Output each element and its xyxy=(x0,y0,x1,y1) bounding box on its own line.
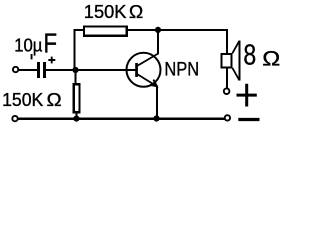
svg-text:150K: 150K xyxy=(2,89,44,110)
output polarity plus sign xyxy=(237,84,257,107)
speaker SPK1 driver box xyxy=(222,54,232,68)
wire: collector vertical up to node xyxy=(157,29,159,55)
transistor Q1 emitter arrowhead xyxy=(150,80,157,87)
wire: speaker bottom drop to plus terminal xyxy=(226,68,228,88)
node: R2 bottom junction dot xyxy=(73,116,79,122)
terminal: bottom-left (open circle) xyxy=(12,116,17,121)
svg-text:NPN: NPN xyxy=(164,60,199,81)
label C1 mu tail extension xyxy=(31,54,33,59)
svg-text:10µ: 10µ xyxy=(14,35,42,55)
transistor Q1 body circle xyxy=(127,53,161,87)
resistor R1 (horizontal 150K) xyxy=(84,27,127,36)
capacitor C1 right plate xyxy=(43,62,46,78)
wire: ground/negative rail xyxy=(18,117,225,119)
svg-text:Ω: Ω xyxy=(47,89,62,110)
svg-text:8: 8 xyxy=(243,39,256,71)
wire: vertical from top wire down to base node xyxy=(74,29,76,70)
terminal: output plus (open circle) xyxy=(224,88,230,94)
node: base junction dot xyxy=(72,67,78,73)
wire: C1 to base of Q1 xyxy=(46,69,137,71)
speaker SPK1 cone xyxy=(232,41,239,81)
wire: top run from R1 left corner xyxy=(74,29,83,31)
terminal: output minus (open circle) xyxy=(225,115,230,120)
wire: input to C1 xyxy=(18,69,37,71)
output polarity minus sign xyxy=(238,118,259,121)
speaker SPK1 cone mouth line xyxy=(238,41,240,81)
wire: stub R2 bottom to ground wire xyxy=(75,113,77,119)
resistor R2 (vertical 150K) xyxy=(74,84,80,112)
wire: drop to speaker top xyxy=(226,29,228,54)
node: collector junction dot xyxy=(155,27,161,33)
wire: R1 right to collector node and speaker xyxy=(128,29,228,31)
transistor Q1 base bar xyxy=(135,63,138,77)
wire: stub base node to R2 top xyxy=(75,70,77,85)
svg-text:Ω: Ω xyxy=(262,48,280,71)
svg-text:Ω: Ω xyxy=(129,1,143,22)
transistor Q1 emitter lead diagonal xyxy=(137,74,157,86)
capacitor C1 polarity plus xyxy=(48,57,55,64)
svg-text:F: F xyxy=(44,28,58,59)
transistor Q1 collector lead diagonal xyxy=(137,54,158,66)
wire: emitter vertical down to ground wire xyxy=(156,86,158,119)
svg-text:150K: 150K xyxy=(84,1,127,22)
node: emitter bottom junction dot xyxy=(153,115,159,121)
capacitor C1 left plate xyxy=(37,62,40,78)
terminal: input (open circle) xyxy=(13,67,18,72)
